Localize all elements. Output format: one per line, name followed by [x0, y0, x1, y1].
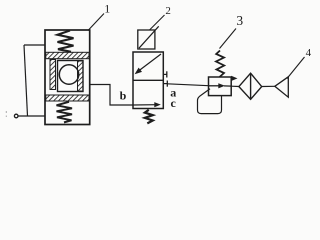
pilot feedback loop of regulator R3: [198, 89, 222, 114]
ball inside piston box: [59, 65, 78, 84]
return spring below valve V2: [145, 110, 153, 124]
leader line label 4: [287, 57, 305, 79]
hatched band (lower cylinder wall): [46, 95, 89, 101]
adjustment spring on regulator R3: [216, 51, 224, 78]
valve V2 bottom-square flow arrow b to c: [133, 102, 161, 107]
piston box outline: [58, 61, 84, 92]
cylinder C1 outer body: [45, 30, 90, 125]
hatched band (upper cylinder wall): [46, 52, 89, 58]
svg-text:4: 4: [306, 47, 312, 59]
leader line label 3: [220, 29, 237, 49]
wire: left vertical line: [24, 45, 28, 116]
valve V2 top-square diagonal flow arrow: [135, 54, 161, 74]
svg-text:2: 2: [165, 5, 171, 17]
svg-text:b: b: [120, 89, 127, 103]
valve V2 port a mark with crossbar: [163, 81, 168, 87]
svg-text:1: 1: [104, 2, 110, 16]
air supply source triangle 4: [275, 77, 289, 97]
regulator R3 relief arrow at top right: [231, 76, 237, 81]
spring (bottom chamber of cylinder C1): [57, 102, 73, 123]
piston right hatched wall: [78, 61, 84, 91]
wire: cylinder right port to valve port b: [90, 85, 133, 106]
valve V2 body: [133, 52, 163, 109]
wire: bottom vent line to cylinder: [18, 115, 45, 117]
wire: supply line valve a to regulator: [167, 84, 208, 86]
filter F (diamond with element line): [239, 73, 262, 99]
vent circle (exhaust port): [14, 114, 18, 118]
svg-text:3: 3: [236, 13, 243, 28]
wire: regulator to filter: [231, 85, 239, 87]
svg-text:c: c: [171, 96, 177, 110]
scan mark left of vent: [5, 111, 7, 117]
leader line label 2: [150, 15, 165, 30]
leader line label 1: [88, 14, 104, 31]
spring (top chamber of cylinder C1): [58, 31, 74, 52]
piston left hatched wall: [50, 60, 56, 90]
solenoid actuator on valve V2: [138, 26, 159, 49]
valve V2 blocked port mark (top square, right): [163, 71, 167, 77]
regulator R3 internal flow line with arrow: [209, 83, 232, 88]
valve V2 divider line: [133, 79, 163, 81]
wire: filter to supply triangle: [262, 85, 275, 87]
pressure regulator R3 body: [209, 77, 232, 96]
wire: cylinder top-left port to vertical line: [24, 44, 45, 46]
